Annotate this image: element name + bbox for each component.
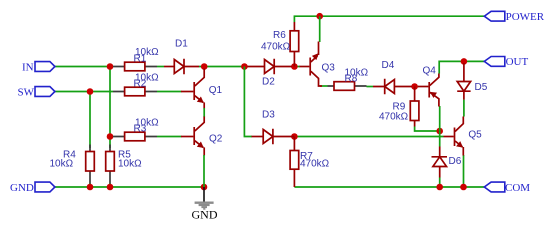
wire R9 bottom bend <box>415 127 440 132</box>
port POWER <box>484 11 544 23</box>
svg-text:D1: D1 <box>175 39 188 50</box>
wire Q4 collector to OUT rail <box>439 61 484 73</box>
resistor R3 <box>113 118 159 141</box>
svg-text:D3: D3 <box>262 110 275 121</box>
svg-text:Q4: Q4 <box>423 65 437 76</box>
resistor R2 <box>113 73 159 96</box>
node R4 GND junction <box>87 184 94 191</box>
svg-text:GND: GND <box>192 207 218 221</box>
svg-text:R6: R6 <box>273 30 286 41</box>
node D5 OUT junction <box>461 58 468 65</box>
wire GND rail <box>55 186 204 188</box>
svg-text:GND: GND <box>10 182 34 194</box>
node IN junction <box>107 63 114 70</box>
port IN <box>22 62 55 74</box>
svg-text:R2: R2 <box>134 79 147 90</box>
wire R1 to D1 <box>157 66 164 68</box>
node Q4 emitter junction <box>436 128 443 135</box>
svg-text:Q1: Q1 <box>209 85 223 96</box>
wire mid rail D3 to Q5 base <box>294 136 443 138</box>
wire Q2 emitter to GND <box>203 155 205 187</box>
wire COM rail <box>294 186 484 188</box>
node POWER rail junction <box>316 13 323 20</box>
svg-text:R3: R3 <box>134 123 147 134</box>
svg-text:POWER: POWER <box>506 11 545 23</box>
svg-text:Q5: Q5 <box>468 129 482 140</box>
wire IN net horizontal <box>55 66 113 68</box>
transistor Q5 <box>444 117 483 156</box>
wire R2 to Q1 base <box>157 91 182 93</box>
transistor Q3 <box>300 42 336 87</box>
svg-text:D6: D6 <box>449 156 462 167</box>
wire D6 bottom stub <box>439 178 441 188</box>
node D4 R9 Q4 junction <box>411 83 418 90</box>
svg-text:10kΩ: 10kΩ <box>50 159 74 170</box>
wire IN vertical to R3/R5 <box>109 67 111 149</box>
diode D1 <box>164 39 199 75</box>
resistor R7 <box>290 137 330 188</box>
svg-text:470kΩ: 470kΩ <box>300 159 330 170</box>
svg-text:SW: SW <box>18 87 35 99</box>
svg-text:Q2: Q2 <box>209 134 223 145</box>
wire D4 cathode stub <box>412 86 419 88</box>
node D2 R6 Q3 junction <box>291 63 298 70</box>
diode D3 <box>252 110 295 145</box>
resistor R1 <box>113 47 159 71</box>
node D6 COM junction <box>436 184 443 191</box>
wire D5 cathode to Q5 collector <box>463 100 465 117</box>
resistor R4 <box>50 145 95 184</box>
diode D5 <box>457 63 488 100</box>
port COM <box>484 182 530 194</box>
node SW junction <box>87 88 94 95</box>
svg-text:D2: D2 <box>262 77 275 88</box>
node D3 R7 junction <box>291 133 298 140</box>
wire Q3 emitter vertical <box>319 16 321 42</box>
diode D4 <box>373 60 412 94</box>
resistor R8 <box>328 68 369 91</box>
svg-text:D4: D4 <box>382 60 395 71</box>
resistor R6 <box>261 22 299 67</box>
wire SW vertical to R4 <box>89 92 91 149</box>
resistor R9 <box>379 87 419 127</box>
port OUT <box>484 56 528 68</box>
svg-text:R1: R1 <box>134 54 147 65</box>
node D1 Q1 junction <box>201 63 208 70</box>
wire Q5 emitter vertical <box>463 155 465 187</box>
node Q5 COM junction <box>460 184 467 191</box>
wire R8 to D4 <box>367 86 374 88</box>
resistor R5 <box>106 145 142 184</box>
wire R3 to Q2 base <box>157 136 182 138</box>
diode D6 <box>432 147 462 178</box>
svg-text:470kΩ: 470kΩ <box>379 111 409 122</box>
wire D3 branch vertical <box>244 67 252 137</box>
svg-text:IN: IN <box>22 62 34 74</box>
wire Q4 junction to D6 <box>439 131 441 147</box>
port SW <box>18 87 55 99</box>
svg-text:470kΩ: 470kΩ <box>261 42 291 53</box>
wire D2 cathode stubs <box>292 66 300 68</box>
node Q2 GND junction <box>201 184 208 191</box>
wire Q1 emitter to Q2 collector <box>203 108 205 117</box>
wire SW net horizontal <box>55 91 113 93</box>
transistor Q1 <box>181 69 222 109</box>
node D3 branch junction <box>241 63 248 70</box>
ground symbol <box>192 187 218 221</box>
port GND <box>10 182 55 194</box>
wire D1 cathode to D2 anode <box>199 66 248 68</box>
svg-text:D5: D5 <box>475 82 488 93</box>
svg-text:R8: R8 <box>345 74 358 85</box>
svg-text:10kΩ: 10kΩ <box>118 159 142 170</box>
diode D2 <box>248 59 293 88</box>
wire R4 bottom stub <box>89 183 91 187</box>
wire Q4 emitter vertical <box>439 106 441 131</box>
wire R5 bottom stub <box>109 183 111 187</box>
node R3 junction <box>107 133 114 140</box>
svg-text:Q3: Q3 <box>322 62 336 73</box>
transistor Q2 <box>181 117 223 156</box>
transistor Q4 <box>418 65 439 106</box>
svg-text:COM: COM <box>505 182 530 194</box>
node R5 GND junction <box>107 184 114 191</box>
wire Q3 collector to R8 <box>320 85 328 87</box>
svg-text:OUT: OUT <box>506 56 529 68</box>
wire R6 top to POWER rail <box>294 16 484 22</box>
